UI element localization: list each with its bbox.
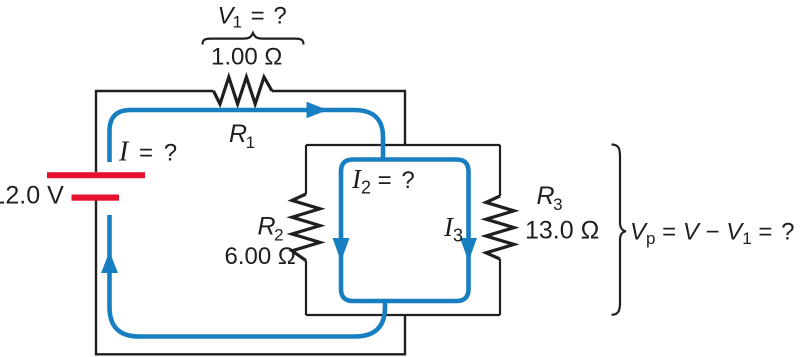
svg-text:12.0 V: 12.0 V: [0, 182, 64, 210]
svg-text:R1: R1: [229, 120, 255, 152]
svg-text:I3: I3: [443, 212, 463, 246]
svg-text:Vp = V − V1 = ?: Vp = V − V1 = ?: [630, 219, 794, 249]
svg-text:I = ?: I = ?: [118, 137, 177, 168]
svg-text:R2: R2: [258, 213, 284, 245]
svg-text:I2 = ?: I2 = ?: [351, 164, 415, 198]
svg-text:1.00 Ω: 1.00 Ω: [211, 44, 282, 71]
svg-text:V1 = ?: V1 = ?: [218, 3, 287, 32]
svg-text:6.00 Ω: 6.00 Ω: [225, 243, 296, 270]
svg-text:R3: R3: [537, 182, 563, 214]
svg-text:13.0 Ω: 13.0 Ω: [525, 217, 599, 245]
